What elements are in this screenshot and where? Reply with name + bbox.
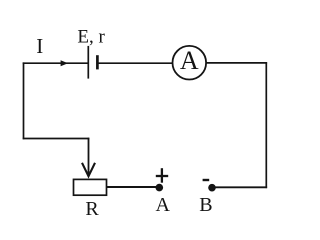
- terminal A dot: [156, 184, 164, 192]
- rheostat arrow shaft: [88, 138, 90, 176]
- resistor R body: [74, 179, 107, 195]
- ammeter circle: [173, 46, 207, 80]
- wire: left vertical side: [23, 62, 25, 139]
- minus sign at terminal B: [203, 179, 210, 181]
- svg-text:B: B: [199, 194, 212, 216]
- rheostat open arrowhead: [82, 163, 95, 176]
- wire: ammeter to top-right corner: [206, 62, 267, 64]
- svg-text:A: A: [156, 194, 171, 216]
- wire: bottom-right horizontal to terminal B: [212, 186, 268, 188]
- wire: right vertical side: [265, 62, 267, 188]
- wire: battery to ammeter: [97, 62, 172, 64]
- battery E, r : short thick plate: [96, 55, 99, 69]
- wire: step horizontal (left corner to arrow shaft): [23, 138, 90, 140]
- svg-text:A: A: [180, 46, 199, 75]
- wire: resistor to terminal A: [107, 186, 160, 188]
- plus sign at terminal A: [156, 175, 168, 177]
- svg-text:R: R: [85, 198, 99, 220]
- svg-text:I: I: [36, 34, 43, 58]
- terminal B dot: [208, 184, 216, 192]
- current arrow I (filled arrowhead on top wire): [61, 60, 68, 66]
- battery E, r : long plate: [87, 46, 89, 79]
- svg-text:E, r: E, r: [77, 27, 105, 48]
- wire: top horizontal from left corner to battery: [23, 62, 89, 64]
